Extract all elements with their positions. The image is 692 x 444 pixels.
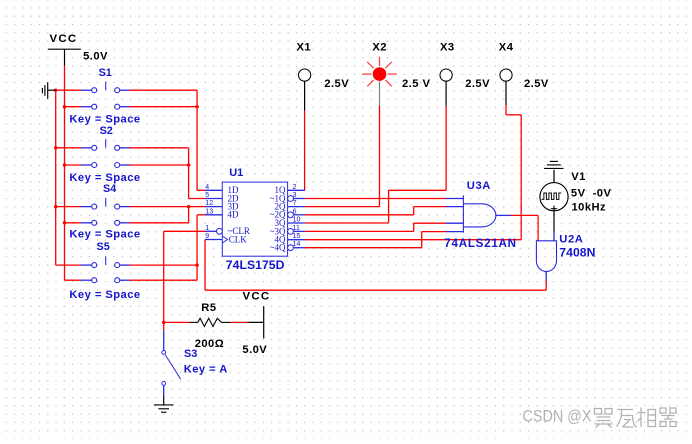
svg-text:S5: S5 — [97, 241, 110, 253]
svg-text:VCC: VCC — [243, 291, 271, 303]
svg-text:5.0V: 5.0V — [242, 344, 267, 356]
svg-text:U2A: U2A — [559, 233, 583, 245]
svg-text:S1: S1 — [99, 67, 112, 79]
svg-text:X1: X1 — [297, 41, 312, 53]
svg-text:Key = Space: Key = Space — [69, 114, 140, 126]
svg-text:7408N: 7408N — [559, 246, 595, 260]
svg-text:S2: S2 — [100, 125, 113, 137]
svg-text:7: 7 — [293, 200, 297, 207]
svg-text:V1: V1 — [571, 171, 586, 183]
svg-text:3: 3 — [293, 192, 297, 199]
svg-text:2.5V: 2.5V — [465, 78, 490, 90]
svg-text:U3A: U3A — [467, 180, 491, 192]
svg-text:R5: R5 — [201, 302, 216, 314]
svg-text:5.0V: 5.0V — [83, 51, 108, 63]
svg-text:Key = A: Key = A — [184, 364, 228, 376]
svg-text:9: 9 — [205, 233, 209, 240]
svg-text:CLK: CLK — [229, 234, 248, 244]
svg-text:X3: X3 — [440, 41, 455, 53]
svg-text:13: 13 — [205, 208, 213, 215]
svg-text:2: 2 — [293, 184, 297, 191]
svg-text:S4: S4 — [103, 183, 116, 195]
svg-text:11: 11 — [293, 225, 300, 232]
svg-text:15: 15 — [293, 233, 301, 240]
svg-text:4: 4 — [205, 184, 209, 191]
svg-text:S3: S3 — [184, 348, 197, 360]
svg-text:2.5 V: 2.5 V — [402, 78, 430, 90]
svg-text:~4Q: ~4Q — [270, 243, 286, 253]
svg-text:74LS175D: 74LS175D — [226, 258, 285, 272]
svg-text:12: 12 — [205, 200, 213, 207]
svg-text:5: 5 — [205, 192, 209, 199]
svg-text:6: 6 — [293, 208, 297, 215]
svg-text:Key = Space: Key = Space — [69, 229, 140, 241]
svg-text:200Ω: 200Ω — [195, 338, 224, 350]
svg-text:74ALS21AN: 74ALS21AN — [444, 237, 516, 250]
svg-text:U1: U1 — [229, 167, 243, 179]
svg-text:1: 1 — [205, 225, 209, 232]
svg-text:14: 14 — [293, 241, 301, 248]
svg-text:2.5V: 2.5V — [324, 78, 349, 90]
svg-text:4D: 4D — [228, 210, 240, 220]
svg-text:2.5V: 2.5V — [524, 78, 549, 90]
svg-text:10: 10 — [293, 217, 301, 224]
svg-text:X2: X2 — [372, 41, 387, 53]
svg-text:VCC: VCC — [50, 33, 78, 45]
svg-text:Key = Space: Key = Space — [69, 172, 140, 184]
svg-text:Key = Space: Key = Space — [69, 289, 140, 301]
svg-text:10kHz: 10kHz — [572, 201, 607, 213]
svg-text:5V -0V: 5V -0V — [571, 188, 612, 200]
svg-text:CSDN @X: CSDN @X — [523, 408, 592, 426]
svg-text:X4: X4 — [499, 41, 514, 53]
